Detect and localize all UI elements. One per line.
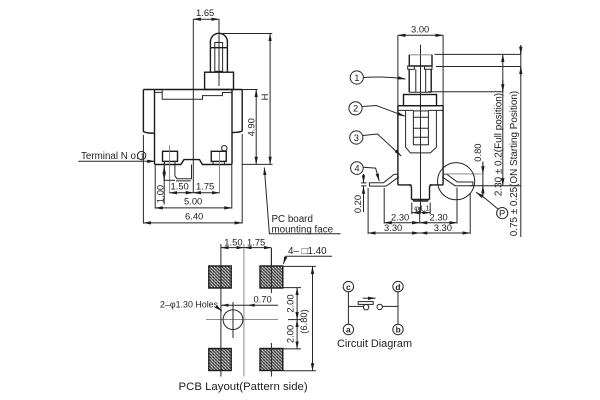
dimension 5.00 <box>155 166 232 209</box>
reference line ON position <box>436 66 521 68</box>
svg-text:4– □1.40: 4– □1.40 <box>288 246 327 257</box>
svg-text:3.30: 3.30 <box>434 222 452 233</box>
svg-text:a: a <box>346 325 351 335</box>
pad bottom-left <box>209 349 231 371</box>
dimension 2.30 / 2.30 <box>384 188 457 224</box>
body box side <box>398 35 443 105</box>
dimension 3.00 <box>398 23 443 35</box>
reference line free position <box>435 53 522 55</box>
wire right <box>397 292 399 325</box>
terminal c <box>343 281 353 291</box>
svg-text:0.80: 0.80 <box>472 143 483 161</box>
svg-text:5.00: 5.00 <box>184 196 202 207</box>
balloon 1 <box>350 71 405 84</box>
svg-text:1.75: 1.75 <box>196 181 214 192</box>
svg-text:Circuit Diagram: Circuit Diagram <box>337 338 412 350</box>
dimension 2.30 full position <box>493 54 504 196</box>
body bottom edge with center bump <box>155 160 233 165</box>
svg-text:φ1.1: φ1.1 <box>414 204 429 213</box>
dimension 6.40 <box>143 134 242 224</box>
label 4 - square 1.40 <box>283 246 332 264</box>
dimension 0.70 <box>222 294 279 307</box>
interior shelf line <box>399 109 443 111</box>
wire to fixed contact <box>382 305 398 307</box>
pad centerline left column <box>220 244 222 377</box>
dimension (6.80) <box>283 266 316 370</box>
hole vertical centerline <box>232 302 234 338</box>
svg-text:2: 2 <box>353 103 358 114</box>
terminal foot right <box>442 174 473 186</box>
balloon 3 <box>350 131 402 156</box>
svg-text:3.30: 3.30 <box>384 222 402 233</box>
balloon 2 <box>349 102 405 116</box>
mounting hole <box>223 310 243 330</box>
detail circle P <box>438 163 475 200</box>
actuation arrow <box>363 297 376 299</box>
fixed contact <box>377 304 382 309</box>
node center reference line <box>192 19 194 193</box>
svg-text:P: P <box>499 208 505 219</box>
svg-text:H: H <box>259 94 270 101</box>
dimension phi 1.1 <box>412 203 430 215</box>
dimension 1.65 <box>193 7 219 19</box>
terminal centerline right <box>219 152 221 193</box>
plunger slot <box>215 43 223 72</box>
interior cup <box>406 110 437 152</box>
svg-text:PC board: PC board <box>272 214 313 225</box>
svg-text:4.90: 4.90 <box>245 118 256 136</box>
svg-text:0.20: 0.20 <box>352 195 363 213</box>
svg-text:3.00: 3.00 <box>411 23 429 34</box>
dimension 1.50 / 1.75 <box>170 181 220 193</box>
plunger cap side <box>409 55 432 66</box>
central boss side <box>409 185 432 201</box>
svg-text:2.00: 2.00 <box>284 325 295 343</box>
dimension 2.00 / 2.00 <box>283 288 301 349</box>
terminal 1 (left) <box>163 151 178 164</box>
dimension 0.20 <box>352 174 367 213</box>
svg-text:4: 4 <box>354 163 359 174</box>
pad top-left <box>209 266 231 288</box>
dimension 4.90 <box>242 90 257 165</box>
plunger stem side <box>409 69 431 92</box>
svg-text:b: b <box>396 325 401 335</box>
label 2 - phi 1.30 holes <box>160 300 222 312</box>
svg-text:1.75: 1.75 <box>247 236 265 247</box>
terminal foot left <box>369 174 399 186</box>
node side centerline <box>420 45 422 214</box>
dimension 1.00 <box>154 163 175 205</box>
terminal 2 (right) <box>211 146 227 165</box>
seating plane line <box>470 185 521 187</box>
plunger base block <box>205 72 234 89</box>
reference line full position <box>428 91 503 93</box>
svg-text:0.75 ± 0.25(ON Starting Positi: 0.75 ± 0.25(ON Starting Position) <box>509 91 520 236</box>
plunger latch tabs <box>408 66 415 69</box>
hole horizontal centerline <box>206 319 278 321</box>
terminal a <box>343 324 353 334</box>
svg-text:2–φ1.30 Holes: 2–φ1.30 Holes <box>160 300 219 310</box>
contact bridge <box>358 302 373 305</box>
svg-text:2.00: 2.00 <box>284 294 295 312</box>
terminal b <box>393 324 403 334</box>
terminal centerline left <box>169 146 171 194</box>
svg-text:2.30 ± 0.2(Full position): 2.30 ± 0.2(Full position) <box>493 93 504 196</box>
label PC board mounting face <box>264 168 340 236</box>
wire left <box>347 292 349 325</box>
balloon 4 <box>351 162 380 181</box>
moving contact <box>363 305 368 310</box>
pad bottom-right <box>260 349 283 371</box>
body outline <box>143 90 242 165</box>
svg-text:PCB Layout(Pattern side): PCB Layout(Pattern side) <box>179 381 308 393</box>
terminal d <box>393 281 403 291</box>
svg-text:3: 3 <box>354 132 359 143</box>
svg-text:Terminal N o.: Terminal N o. <box>81 151 139 162</box>
node plunger centerline <box>218 19 220 86</box>
body top recess line <box>155 89 233 99</box>
svg-text:1: 1 <box>354 72 359 83</box>
label Terminal No.1 <box>78 151 155 162</box>
svg-text:1.50: 1.50 <box>224 236 242 247</box>
central boss front <box>175 165 192 181</box>
svg-text:d: d <box>395 282 400 292</box>
interior contact ladder <box>413 111 428 145</box>
dimension 0.80 <box>472 143 483 197</box>
dimension 0.75 ON starting position <box>509 45 521 237</box>
svg-text:1.65: 1.65 <box>196 7 214 18</box>
plunger base side <box>404 95 437 106</box>
svg-text:1.00: 1.00 <box>154 185 165 203</box>
plunger stem <box>210 48 227 72</box>
svg-text:c: c <box>346 282 351 292</box>
wire to moving contact <box>348 305 363 307</box>
foot top reference line <box>444 173 482 175</box>
dimension 3.30 / 3.30 <box>368 188 470 234</box>
svg-text:(6.80): (6.80) <box>298 309 309 334</box>
plunger cap dome <box>210 33 227 47</box>
svg-text:6.40: 6.40 <box>185 211 203 222</box>
dimension 1.50 / 1.75 top <box>221 236 272 266</box>
dimension H <box>221 34 273 165</box>
pad centerline right column <box>270 248 272 377</box>
pattern center line <box>243 244 245 377</box>
pad top-right <box>260 266 283 288</box>
svg-text:1.50: 1.50 <box>171 181 189 192</box>
svg-text:0.70: 0.70 <box>254 294 272 305</box>
balloon P <box>476 192 508 218</box>
